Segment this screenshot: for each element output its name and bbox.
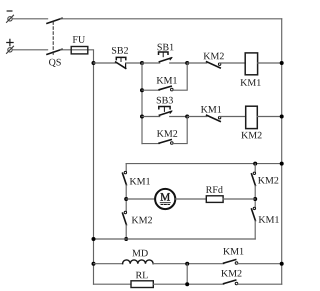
node left bus / bottom line [92, 237, 96, 241]
pushbutton SB1 (start fwd, NO) [159, 52, 173, 62]
label KM1 (NC rung2) [201, 106, 221, 113]
node left bus / rung1 [92, 61, 96, 65]
label SB3 [157, 97, 173, 104]
contact KM2 NC (interlock, rung1) [207, 62, 221, 68]
contact KM2 NO (right leg upper) [252, 172, 256, 185]
contact KM1 NO (right leg lower) [252, 207, 256, 220]
contact KM2 NO (RL line) [224, 280, 238, 285]
wire rung1 bus to SB2 [94, 62, 116, 64]
wire KM2 holding branch left [142, 143, 160, 145]
wire RL to node D [153, 283, 224, 285]
label KM1 (right leg lower) [259, 216, 279, 223]
wire RFd to right leg [223, 198, 255, 200]
label KM1 (MD line) [223, 248, 243, 255]
pushbutton SB3 (start rev, NO) [159, 107, 172, 116]
switch QS upper blade [47, 18, 62, 23]
wire node C vertical [186, 264, 188, 285]
node B [185, 61, 189, 65]
wire QS to fuse FU (through fuse) [60, 50, 93, 63]
wire node A to SB1 [142, 62, 160, 64]
node right armature [253, 197, 257, 201]
pushbutton SB2 (stop, NC) [116, 57, 126, 68]
contact KM1 NC (interlock, rung2) [207, 115, 221, 121]
node C [185, 262, 189, 266]
node left armature [124, 197, 128, 201]
wire right leg middle [254, 186, 256, 208]
wire SB1 to node B [170, 62, 188, 64]
node A2 (KM1 holding branch) [140, 88, 144, 92]
switch QS dashed linkage [52, 22, 54, 55]
label RL [136, 272, 148, 279]
label KM2 (right leg) [258, 177, 278, 184]
label KM2 (RL line) [221, 270, 241, 277]
terminal - (negative supply) [7, 11, 14, 22]
wire KM1 NC to coil KM2 [220, 116, 246, 118]
label SB1 [158, 44, 174, 51]
node bridge top / right bus [280, 162, 284, 166]
label SB2 [112, 47, 128, 54]
contact KM2 NO (left leg lower) [123, 211, 127, 224]
wire left leg middle [125, 185, 127, 211]
wire motor to RFd [175, 198, 206, 200]
node right bus / MD line [280, 262, 284, 266]
fuse FU [71, 47, 88, 54]
coil KM1 (contactor) [245, 53, 257, 75]
wire coil KM2 to right bus [257, 116, 281, 118]
label KM2 (left leg lower) [132, 217, 152, 224]
node right bus / rung2 [280, 115, 284, 119]
wire coil KM1 to right bus [258, 62, 282, 64]
wire motor bridge top [126, 163, 282, 165]
wire - terminal to QS [12, 18, 47, 20]
coil KM2 (contactor) [246, 106, 258, 128]
switch QS lower blade [47, 49, 62, 54]
terminal + (positive supply) [7, 39, 14, 53]
motor M (DC motor) [155, 189, 175, 209]
label KM1 (holding contact) [157, 77, 177, 84]
wire rung2 node A to SB3 [142, 116, 160, 118]
wire node B to KM2 NC contact [187, 62, 207, 64]
wire MD to node C [153, 263, 224, 265]
wire KM1 contact to right bus [238, 263, 282, 265]
resistor RFd (field discharge) [206, 196, 223, 203]
wire left leg upper [125, 164, 127, 172]
wire node B2 to KM1 NC contact [187, 116, 207, 118]
DC mark under M [160, 203, 170, 205]
wire KM2 contact to right bus corner [238, 283, 282, 285]
node bridge top / right leg [253, 162, 257, 166]
wire motor bridge bottom [94, 238, 256, 240]
wire bus to inductor MD [94, 263, 123, 265]
wire RL line left [94, 283, 132, 285]
wire KM1 holding branch right [173, 63, 188, 90]
node right bus / rung1 [280, 61, 284, 65]
label KM1 (coil) [240, 79, 260, 86]
wire node A vertical [141, 63, 143, 144]
contact KM2 NO (holding, parallel SB3) [159, 140, 173, 145]
wire KM2 holding branch right [173, 117, 188, 144]
contact KM1 NO (MD line) [224, 260, 238, 265]
node B2 [185, 115, 189, 119]
wire SB2 to node A [126, 62, 142, 64]
wire KM1 holding branch left [142, 89, 160, 91]
label FU [73, 36, 85, 43]
wire armature line left [126, 198, 155, 200]
wire + terminal to QS [12, 49, 47, 51]
wire right bus [281, 19, 283, 284]
node D [185, 282, 189, 286]
contact KM1 NO (holding, parallel SB1) [159, 86, 173, 91]
wire top rail to right corner [60, 18, 281, 20]
wire right leg upper [254, 164, 256, 173]
node left leg / bottom line [124, 237, 128, 241]
node A3 (rung2 tap) [140, 115, 144, 119]
wire KM2 NC to coil KM1 [220, 62, 246, 64]
contact KM1 NO (left leg upper) [123, 171, 127, 184]
resistor RL (braking) [131, 281, 153, 288]
label KM1 (left leg) [130, 178, 150, 185]
label MD [132, 250, 147, 257]
wire SB3 to node B2 [170, 116, 188, 118]
label KM2 (holding contact) [157, 130, 177, 137]
node left bus / MD line [92, 262, 96, 266]
wire right leg lower [254, 221, 256, 239]
label RFd [206, 186, 223, 193]
label M (motor) [160, 193, 169, 200]
wire left bus [93, 63, 95, 284]
inductor MD (smoothing reactor) [123, 260, 153, 264]
wire left leg lower [125, 225, 127, 239]
label QS [49, 59, 61, 67]
node A [140, 61, 144, 65]
label KM2 (NC rung1) [204, 53, 224, 60]
label KM2 (coil) [241, 132, 261, 139]
